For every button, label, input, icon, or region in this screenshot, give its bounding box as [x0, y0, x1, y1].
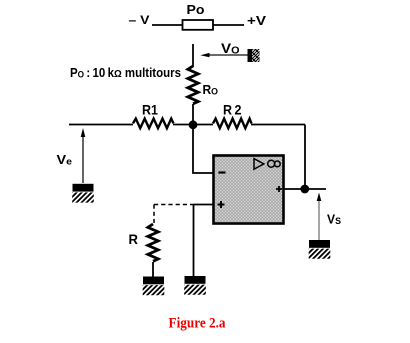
pin plus (output) — [276, 186, 282, 192]
wire R2 to right corner — [251, 124, 305, 126]
pin plus (input) — [218, 201, 225, 208]
op-amp U1 — [214, 156, 284, 224]
resistor Ro — [188, 66, 198, 104]
svg-text:+V: +V — [247, 14, 267, 28]
pin minus — [219, 171, 226, 173]
wire R to ground — [152, 262, 154, 277]
wire junction to minus input — [193, 125, 213, 173]
wire plus input to ground vertical — [193, 205, 195, 278]
ground below plus input — [172, 276, 215, 296]
ground Ve — [60, 184, 103, 204]
svg-text:R: R — [129, 231, 139, 247]
svg-text:R 2: R 2 — [223, 102, 242, 118]
node Vo arrow — [200, 53, 248, 57]
node junction dot — [189, 120, 198, 129]
ground Vs — [297, 240, 340, 260]
terminal block Vo — [248, 46, 263, 64]
wire R1 to junction — [173, 124, 213, 126]
wire Ro to junction — [192, 104, 194, 126]
potentiometer Po body — [183, 20, 214, 30]
node output dot — [300, 185, 309, 194]
svg-text:Figure 2.a: Figure 2.a — [169, 316, 226, 332]
svg-text:VO: VO — [221, 40, 240, 56]
wire left horizontal to R1 — [69, 124, 133, 126]
svg-text:RO: RO — [203, 82, 219, 98]
resistor R1 — [133, 119, 174, 129]
resistor R — [148, 224, 158, 261]
wire output — [284, 188, 326, 190]
svg-text:Ve: Ve — [57, 152, 73, 168]
wire dashed horizontal to R — [154, 204, 193, 206]
node Vs arrow — [317, 193, 322, 241]
op-amp infinity symbol — [268, 160, 275, 167]
ground below R — [131, 277, 174, 297]
wire plus input stub — [193, 204, 213, 206]
wire dashed vertical to R — [153, 205, 155, 224]
svg-text:PO : 10 kΩ multitours: PO : 10 kΩ multitours — [70, 66, 181, 80]
wire wiper vertical — [192, 44, 194, 67]
svg-text:R1: R1 — [142, 102, 158, 118]
svg-text:– V: – V — [129, 13, 150, 27]
op-amp triangle symbol — [254, 159, 264, 170]
svg-text:VS: VS — [327, 212, 341, 228]
svg-text:Po: Po — [187, 2, 205, 17]
wire potentiometer to +V — [213, 24, 244, 26]
wire feedback vertical — [304, 125, 306, 190]
wire -V to potentiometer — [152, 24, 183, 26]
resistor R2 — [213, 119, 252, 129]
node Ve arrow — [81, 128, 86, 183]
